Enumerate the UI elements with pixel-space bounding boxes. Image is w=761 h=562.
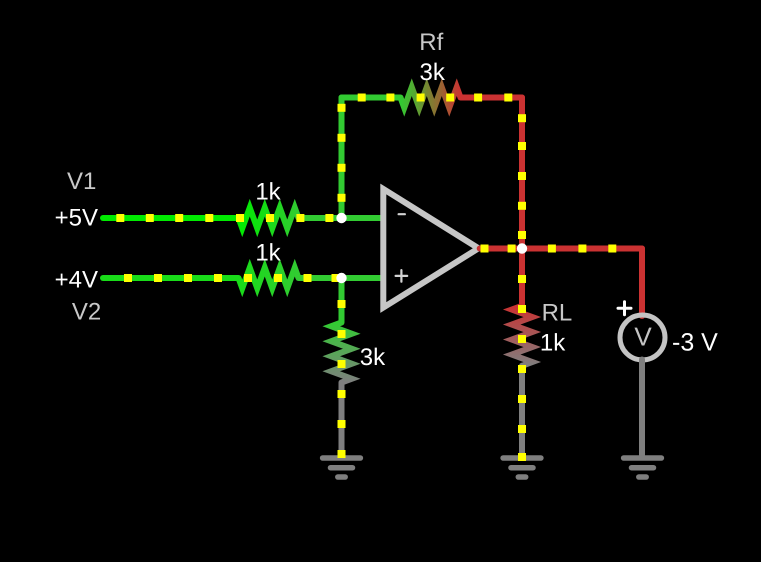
current dots wire V1 branch	[116, 214, 333, 222]
wire node C down to RL (-3V)	[519, 249, 525, 306]
current dots wire V2 branch	[124, 274, 340, 282]
wire node B down to R3 (3V)	[339, 278, 345, 323]
resistor RL 1k body (vertical)	[512, 306, 533, 366]
current dots feedback left vertical	[338, 104, 346, 202]
wire R1 to node A (3V)	[299, 215, 342, 221]
wire RL to ground (0V)	[519, 366, 525, 457]
wire node C to voltmeter corner (-3V)	[522, 246, 642, 252]
wire op-amp output to node C (-3V)	[480, 246, 522, 252]
svg-text:3k: 3k	[420, 59, 446, 86]
wire V1 source to R1 (+5V)	[103, 215, 239, 221]
current dots RL branch	[518, 275, 526, 461]
svg-text:+4V: +4V	[55, 267, 98, 294]
current dots feedback top horizontal	[358, 94, 513, 102]
svg-text:Rf: Rf	[419, 29, 443, 56]
svg-text:1k: 1k	[540, 329, 566, 356]
svg-text:V: V	[634, 322, 652, 352]
wire feedback right vertical (-3V)	[519, 98, 525, 249]
wire feedback top left horizontal (3V)	[342, 95, 401, 101]
wire R2 to node B (3V)	[299, 275, 342, 281]
op-amp U1 body	[383, 189, 478, 308]
op-amp U1 plus sign	[396, 270, 408, 282]
svg-text:V2: V2	[72, 299, 101, 326]
svg-text:-3 V: -3 V	[672, 329, 718, 357]
svg-text:+5V: +5V	[55, 204, 98, 231]
node A junction dot	[336, 213, 346, 223]
resistor Rf 3k body	[401, 87, 461, 108]
wire feedback top right horizontal (-3V)	[461, 95, 523, 101]
resistor R3 3k body (vertical)	[331, 323, 352, 383]
node B junction dot	[336, 273, 346, 283]
wire V2 source to R2 (+4V)	[103, 275, 239, 281]
wire voltmeter vertical (-3V)	[639, 249, 645, 317]
ground G2	[503, 458, 541, 477]
current dots op-amp output	[481, 245, 617, 253]
svg-text:3k: 3k	[360, 344, 386, 371]
voltmeter M1 plus polarity mark	[618, 302, 631, 315]
voltmeter M1 circle	[620, 315, 665, 360]
ground G3	[624, 458, 662, 477]
ground G1	[323, 458, 361, 477]
svg-text:V1: V1	[67, 168, 96, 195]
svg-text:RL: RL	[542, 299, 573, 326]
current dots R3 branch	[338, 300, 346, 458]
wire voltmeter to ground (0V)	[639, 360, 645, 458]
wire node B to op-amp non-inverting input	[342, 275, 382, 281]
svg-text:1k: 1k	[255, 239, 281, 266]
current dots feedback right vertical	[518, 114, 526, 239]
op-amp U1 minus sign	[399, 213, 405, 215]
wire R3 to ground (0V)	[339, 383, 345, 458]
resistor R2 1k body	[239, 268, 299, 289]
svg-text:1k: 1k	[255, 178, 281, 205]
wire node A to op-amp inverting input	[342, 215, 382, 221]
node C junction dot	[517, 243, 527, 253]
wire feedback left vertical (3V)	[339, 98, 345, 219]
resistor R1 1k body	[239, 208, 299, 229]
